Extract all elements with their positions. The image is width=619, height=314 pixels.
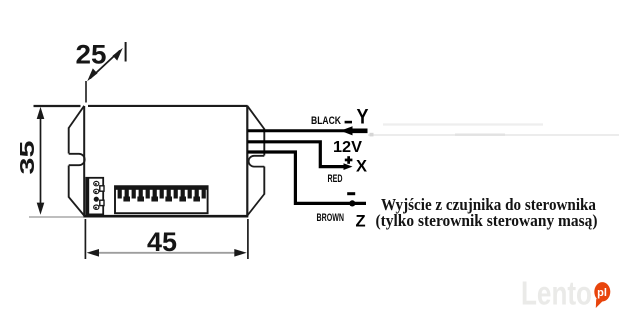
svg-text:25: 25 <box>76 40 107 70</box>
DIP switch body <box>115 186 208 213</box>
dimension 45 label <box>147 227 177 257</box>
label 12V <box>333 139 363 156</box>
erased-wire smudge lower <box>368 133 619 137</box>
svg-text:BROWN: BROWN <box>317 212 345 224</box>
DIP switch teeth row <box>118 189 206 202</box>
minus mark above wire 3 end <box>347 192 355 195</box>
svg-text:Lento: Lento <box>521 275 592 312</box>
connector pin hole 1 <box>94 181 99 185</box>
connector pin hole 4 <box>94 205 99 209</box>
plus mark above wire 2 end <box>345 156 353 164</box>
svg-text:pl: pl <box>597 287 607 299</box>
connector pin hole 3 (filled) <box>94 197 99 202</box>
watermark pl bubble <box>594 282 610 308</box>
sensor box body outline <box>84 106 249 216</box>
dimension 45 line with arrows <box>87 249 247 257</box>
right mounting flange <box>247 106 264 216</box>
svg-text:Y: Y <box>357 105 369 129</box>
dimension 25 leader arrow <box>87 42 125 81</box>
label BROWN <box>317 212 345 224</box>
svg-text:X: X <box>356 157 367 175</box>
left mounting flange <box>69 106 85 216</box>
dimension 25 label <box>76 40 107 70</box>
dimension 25 leader vertical stub <box>85 81 87 103</box>
terminal Z <box>356 213 366 231</box>
terminal connector block <box>86 177 104 214</box>
svg-text:12V: 12V <box>333 139 363 156</box>
svg-text:35: 35 <box>17 141 39 175</box>
label RED <box>328 173 343 185</box>
right flange keyhole slot <box>249 156 265 167</box>
wire 1 BLACK <box>248 126 368 135</box>
svg-text:BLACK: BLACK <box>311 115 341 127</box>
connector pin hole 2 <box>94 189 99 193</box>
wire 2 RED <box>248 142 353 170</box>
terminal X <box>356 157 367 175</box>
terminal Y <box>357 105 369 129</box>
dimension 45 extension lines <box>85 219 248 259</box>
left flange keyhole slot <box>69 154 85 165</box>
svg-text:(tylko sterownik sterowany mas: (tylko sterownik sterowany masą) <box>376 211 598 230</box>
dimension 35 label (rotated) <box>17 141 39 175</box>
label BLACK <box>311 115 341 127</box>
sensor box top edge <box>34 105 248 107</box>
svg-text:45: 45 <box>147 227 177 257</box>
dimension 35 line with arrows <box>37 107 45 215</box>
annotation text (Polish) <box>376 195 598 230</box>
svg-text:RED: RED <box>328 173 343 185</box>
minus mark above wire 1 <box>345 121 352 124</box>
erased-wire smudge upper <box>383 123 543 125</box>
dimension 35 bottom extension line <box>29 216 84 218</box>
svg-text:Z: Z <box>356 213 366 231</box>
watermark Lento wordmark <box>521 275 592 312</box>
wire 3 BROWN <box>248 152 367 206</box>
